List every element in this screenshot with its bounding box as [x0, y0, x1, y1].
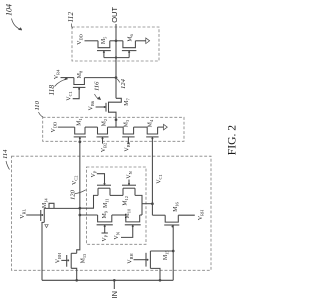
svg-text:VBH: VBH [128, 253, 135, 264]
svg-text:M8: M8 [77, 70, 84, 78]
svg-text:M14: M14 [42, 198, 49, 208]
svg-text:VBH: VBH [55, 252, 62, 263]
svg-text:FIG. 2: FIG. 2 [225, 125, 238, 155]
svg-text:VB6: VB6 [89, 100, 96, 110]
svg-text:M7: M7 [124, 98, 131, 106]
svg-text:VP: VP [91, 170, 98, 177]
svg-text:104: 104 [5, 4, 14, 16]
svg-text:VB1: VB1 [124, 142, 131, 151]
svg-text:116: 116 [94, 81, 101, 91]
svg-text:VP: VP [102, 234, 109, 241]
svg-text:M1: M1 [76, 118, 83, 125]
svg-text:VN: VN [127, 170, 134, 178]
svg-text:M5: M5 [101, 36, 108, 44]
svg-text:VRL: VRL [20, 209, 27, 219]
svg-text:VC2: VC2 [72, 176, 79, 185]
svg-text:M15: M15 [163, 250, 170, 260]
svg-text:M10: M10 [125, 208, 132, 218]
svg-text:M16: M16 [173, 201, 180, 211]
svg-text:OUT: OUT [110, 7, 119, 23]
svg-text:110: 110 [34, 100, 41, 110]
svg-text:112: 112 [66, 12, 75, 23]
svg-text:VC1: VC1 [66, 91, 73, 100]
svg-text:M4: M4 [147, 119, 154, 127]
svg-text:VR4: VR4 [54, 69, 61, 79]
svg-text:VB2: VB2 [101, 143, 108, 152]
svg-text:M2: M2 [101, 119, 108, 126]
svg-text:M9: M9 [102, 210, 109, 218]
svg-text:M3: M3 [123, 119, 130, 127]
svg-text:114: 114 [2, 149, 9, 159]
svg-text:VN: VN [114, 231, 121, 239]
svg-text:VDD: VDD [51, 122, 58, 133]
svg-text:VDD: VDD [77, 34, 84, 45]
svg-text:M13: M13 [80, 253, 87, 263]
svg-text:M11: M11 [103, 199, 110, 208]
svg-text:VC1: VC1 [157, 174, 164, 183]
svg-text:M12: M12 [122, 196, 129, 206]
svg-text:120: 120 [70, 189, 77, 200]
svg-text:M6: M6 [128, 33, 135, 41]
svg-text:VRH: VRH [198, 209, 205, 220]
svg-text:124: 124 [120, 78, 127, 89]
svg-text:IN: IN [110, 291, 119, 299]
